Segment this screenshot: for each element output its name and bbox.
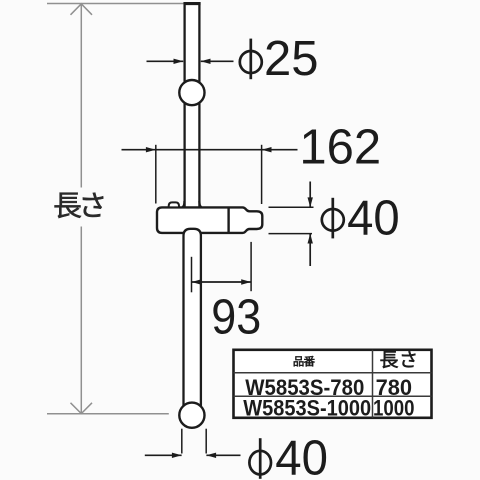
wall bracket circle (top) (179, 80, 204, 105)
dimension phi25: left line with arrowhead (147, 60, 184, 62)
dimension phi40 (slider): bottom extension line (269, 233, 313, 235)
svg-text:25: 25 (264, 32, 319, 86)
dimension 162: left extension line (155, 145, 157, 204)
table column divider (372, 350, 374, 418)
dimension phi40 (slider): upper line with down arrowhead (309, 182, 311, 208)
overall-length dimension: bottom extension line (47, 413, 169, 415)
rod top cap edge (184, 2, 201, 5)
table outer border (234, 350, 432, 418)
svg-text:162: 162 (299, 120, 381, 174)
svg-text:1000: 1000 (373, 396, 415, 421)
slider divider line (227, 208, 229, 233)
svg-text:93: 93 (211, 291, 261, 345)
table header 品番 (product no.) (294, 356, 315, 366)
dimension 162: dimension line (122, 149, 298, 151)
dimension 162: right extension line (261, 145, 263, 204)
dimension phi40 (slider) text (322, 198, 344, 239)
label 長さ (length) (55, 193, 104, 219)
dimension 162: right arrowhead (262, 147, 272, 152)
overall-length dimension: bottom open arrowhead (71, 403, 93, 414)
dimension phi40 (bottom): left line with arrowhead (145, 454, 182, 456)
dimension phi40 (bottom): left extension line (181, 429, 183, 454)
slider body (157, 207, 262, 233)
dimension 93: left extension line (rod centerline) (191, 257, 193, 293)
dimension phi40 (bottom): right line with arrowhead (206, 454, 240, 456)
dimension 93: right arrowhead (241, 279, 251, 284)
dimension phi40 (bottom) text (249, 438, 271, 479)
dimension phi40 (bottom): right extension line (205, 429, 207, 454)
dimension 93: left arrowhead (192, 279, 202, 284)
overall-length dimension: top open arrowhead (71, 4, 93, 15)
dimension phi40 (slider): lower line with up arrowhead (309, 234, 311, 266)
dimension 93: right extension line (250, 242, 252, 291)
table header 長さ (length) (381, 351, 416, 368)
dimension phi40 (slider): top extension line (269, 206, 314, 208)
dimension phi25: right line with arrowhead (201, 60, 234, 62)
grip sleeve below slider (184, 229, 201, 407)
end cap circle (bottom) (179, 403, 204, 428)
dimension 162: left arrowhead (146, 147, 156, 152)
slider lock button (169, 202, 179, 207)
svg-text:40: 40 (275, 432, 328, 480)
overall-length dimension: vertical dimension line (lower part) (80, 227, 82, 414)
slide bar rod (185, 3, 200, 407)
rod flare into slider top (182, 201, 201, 207)
dimension phi25 text (240, 39, 262, 80)
overall-length dimension (gray): top extension line (47, 3, 184, 5)
dimension 93: dimension line (192, 281, 252, 283)
table row separator line (234, 395, 432, 397)
table header separator line (234, 372, 432, 374)
overall-length dimension: vertical dimension line (upper part) (80, 4, 82, 188)
svg-text:W5853S-1000: W5853S-1000 (243, 396, 371, 421)
svg-text:40: 40 (347, 191, 400, 245)
